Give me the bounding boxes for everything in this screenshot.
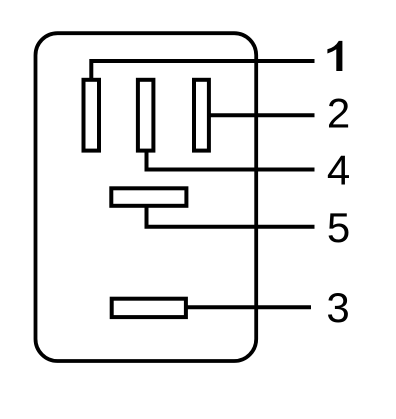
relay body outline: [36, 33, 257, 361]
pin terminal 5: [111, 188, 186, 206]
pin terminal 3: [112, 299, 186, 317]
svg-text:4: 4: [327, 147, 350, 194]
wire pin1 to label 1: [91, 61, 314, 80]
wire pin5 to label 5: [147, 206, 315, 227]
svg-text:2: 2: [327, 89, 350, 136]
label 1: [327, 41, 342, 71]
wire pin3 to label 3: [186, 305, 311, 309]
svg-text:3: 3: [326, 284, 349, 331]
pin terminal 2: [194, 80, 209, 151]
svg-text:5: 5: [327, 204, 350, 251]
wire pin4 to label 4: [147, 150, 315, 170]
wire pin2 to label 2: [209, 113, 315, 117]
pin terminal 1: [84, 80, 100, 151]
pin terminal 4: [138, 80, 154, 151]
